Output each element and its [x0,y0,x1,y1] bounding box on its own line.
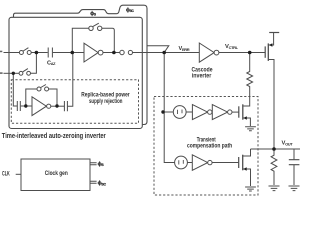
svg-text:VERR: VERR [179,46,190,52]
svg-text:ϕS: ϕS [98,161,105,167]
svg-text:CLK: CLK [2,170,10,177]
svg-text:VOUT: VOUT [282,141,294,147]
svg-text:inverter: inverter [192,73,212,80]
svg-text:ϕSC: ϕSC [98,181,107,187]
svg-text:Time-interleaved auto-zeroing: Time-interleaved auto-zeroing inverter [2,131,106,140]
svg-text:ϕSC: ϕSC [126,7,134,13]
svg-text:compensation path: compensation path [187,143,232,150]
svg-text:supply rejection: supply rejection [89,98,122,105]
svg-text:Clock gen: Clock gen [45,170,68,177]
svg-text:VCTRL: VCTRL [225,44,239,50]
svg-text:CAZ: CAZ [47,60,56,66]
